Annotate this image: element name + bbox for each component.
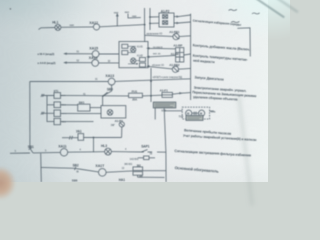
wire arrow up: [116, 14, 118, 26]
wire BO2 down: [137, 175, 139, 177]
switch block SAP1: [138, 150, 155, 160]
wire brace vertical: [190, 14, 192, 100]
wire A1 out 2: [147, 55, 175, 57]
wire to A1-P2 top: [150, 16, 159, 18]
wire XA13 right: [115, 79, 190, 82]
wire row2 right: [106, 171, 133, 172]
wire vertical bus left: [144, 8, 146, 42]
relay contact A1-K2: [140, 58, 146, 68]
wire P3 down: [121, 127, 123, 137]
wire XA15 right: [99, 53, 119, 55]
wire bottom bus vertical: [40, 153, 43, 182]
wire contacts left bus: [47, 96, 54, 122]
wire UA1 left with break: [62, 136, 78, 140]
solenoid UA1: [78, 134, 84, 141]
wire bus from SB9 down: [102, 96, 104, 105]
thermo sensor A1-BP: [176, 48, 184, 62]
wire vertical bus right: [149, 8, 151, 30]
connector XA15: [92, 51, 99, 58]
wire contact1 right: [61, 94, 66, 96]
wire bracket top right: [237, 28, 250, 57]
fuse FU1: [129, 93, 143, 97]
lamp HL3: [105, 148, 112, 155]
wire contact4 right: [61, 121, 94, 123]
relay contact K6.1: [54, 118, 61, 124]
motor group box dashed: [182, 107, 209, 119]
right column description texts: [174, 19, 256, 174]
wire XA13 down: [103, 85, 112, 96]
switch SB2: [74, 167, 79, 170]
wire arrow P2 out bottom: [174, 22, 178, 24]
note box tyristor: [153, 102, 176, 108]
interlock BK1: [78, 104, 90, 111]
wire to A1-P2 bottom: [150, 22, 159, 24]
control box A1-P3: [101, 106, 126, 118]
wire A1 out 1: [147, 48, 175, 50]
connector XA12: [93, 24, 99, 30]
wire row1 right: [111, 151, 165, 154]
wire row2 mid: [79, 169, 98, 172]
wire junction down: [93, 138, 95, 153]
module box A1: [119, 42, 148, 68]
wire XA14 left: [65, 62, 92, 64]
wire to PD1: [145, 35, 173, 36]
wire contact3 right: [61, 112, 102, 114]
wire UA1 right: [84, 137, 122, 139]
wire XA14 right: [99, 62, 119, 64]
wire bus right vertical: [164, 108, 166, 182]
gauge P3: [119, 122, 124, 127]
transistor A1-VT1: [128, 46, 136, 52]
wire A1 out 3: [147, 66, 172, 69]
connector XA11: [60, 149, 67, 156]
node ink dot top left: [10, 8, 11, 9]
wire note to motors: [164, 110, 182, 112]
wire vertical bus mid: [150, 68, 152, 102]
wire row2 branch: [41, 166, 75, 169]
wire row1 left: [10, 151, 60, 154]
wire row1 mid: [68, 151, 105, 154]
wire contact2 right: [61, 104, 78, 106]
wire XA13 left: [30, 81, 108, 83]
connector XA14: [92, 60, 99, 67]
wire arrow F1 out: [172, 92, 181, 94]
wire note stub down: [154, 108, 156, 120]
wire main row through FU1: [61, 94, 163, 97]
fuse A1-F1: [162, 92, 172, 97]
wire motor box right stub: [210, 110, 214, 112]
wire BO2 right: [143, 170, 166, 172]
lamp HL2: [107, 110, 113, 116]
wire motor link: [192, 112, 199, 115]
wire BK1 right: [90, 107, 101, 109]
transistor A1-VT2: [128, 58, 140, 65]
relay contact K2.1: [54, 102, 61, 108]
switch SB9: [102, 92, 107, 97]
pressure switch A1-PD2: [172, 66, 179, 72]
relay contact KT1: [54, 93, 61, 99]
note box motors: [186, 115, 203, 120]
wire arrow P2 out top: [174, 16, 178, 18]
wire stub x mark top: [41, 94, 47, 97]
wire left bus vertical: [29, 82, 31, 149]
node junction on bus: [150, 80, 152, 97]
switch SB1: [29, 148, 33, 153]
wire stub x mark bottom: [41, 112, 47, 115]
motor M1: [186, 110, 192, 116]
lamp HL1: [55, 24, 61, 30]
connector XA17: [99, 169, 107, 177]
wire brace stubs: [178, 15, 190, 93]
pressure switch A1-PD1: [173, 34, 180, 40]
connector XA13: [108, 78, 115, 85]
wire XA15 left: [65, 53, 93, 55]
wire top row: [39, 25, 145, 30]
node junction dots: [144, 16, 151, 25]
wire bottom stub: [138, 176, 165, 178]
node junction UA1: [93, 137, 95, 139]
relay contact KM1: [54, 110, 61, 117]
switch block BO2: [133, 167, 143, 175]
wire stub with bend: [128, 14, 141, 18]
relay contact A1-K1: [122, 44, 128, 54]
motor M2: [199, 110, 205, 116]
handwriting mal top right: [229, 10, 260, 23]
relay A1-P2: [159, 13, 174, 27]
